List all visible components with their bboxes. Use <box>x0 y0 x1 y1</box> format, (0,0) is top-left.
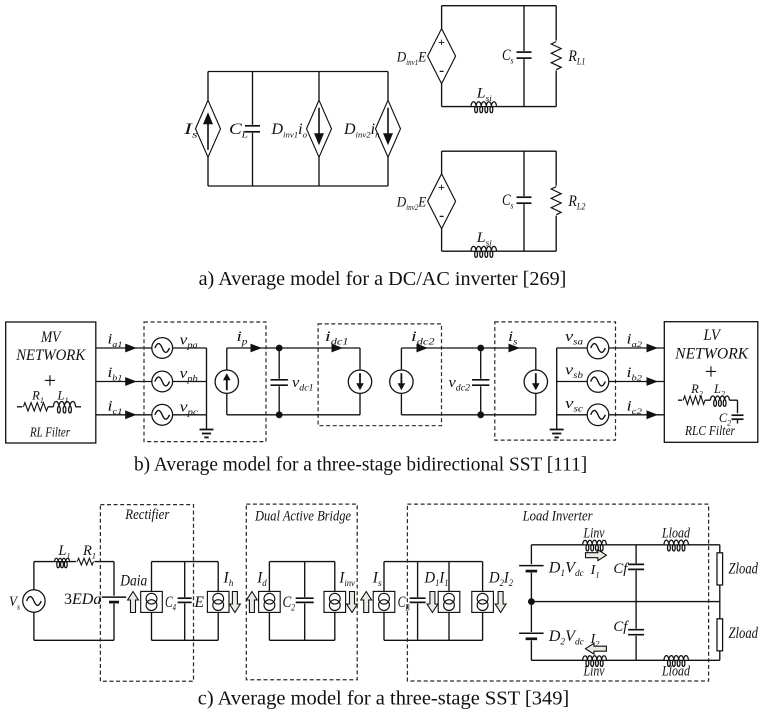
svg-text:Zload: Zload <box>729 561 759 578</box>
svg-text:LV: LV <box>703 327 722 344</box>
svg-text:+: + <box>705 359 717 384</box>
svg-text:E: E <box>194 594 205 611</box>
svg-text:a) Average model for a DC/AC i: a) Average model for a DC/AC inverter [2… <box>199 268 567 290</box>
svg-text:Lload: Lload <box>661 664 690 680</box>
svg-text:Linv: Linv <box>583 526 605 542</box>
svg-text:Dual Active Bridge: Dual Active Bridge <box>254 509 351 525</box>
svg-text:Load Inverter: Load Inverter <box>522 509 593 525</box>
svg-text:NETWORK: NETWORK <box>15 347 86 364</box>
svg-text:-: - <box>439 63 444 79</box>
svg-text:Lload: Lload <box>661 526 690 542</box>
svg-text:Daia: Daia <box>119 573 147 590</box>
svg-text:+: + <box>44 368 56 393</box>
svg-text:-: - <box>439 208 444 224</box>
svg-text:RLC Filter: RLC Filter <box>684 423 735 438</box>
svg-text:b) Average model for a three-s: b) Average model for a three-stage bidir… <box>134 454 587 476</box>
svg-text:Linv: Linv <box>583 664 605 680</box>
svg-text:Cf: Cf <box>613 619 629 635</box>
svg-text:Cf: Cf <box>613 561 629 577</box>
svg-text:Rectifier: Rectifier <box>124 507 169 523</box>
svg-text:+: + <box>438 180 445 194</box>
svg-text:3EDa: 3EDa <box>64 591 101 608</box>
svg-text:+: + <box>438 35 445 49</box>
svg-text:RL Filter: RL Filter <box>29 425 70 440</box>
svg-text:c) Average model for a three-s: c) Average model for a three-stage SST [… <box>198 688 570 710</box>
svg-text:Zload: Zload <box>729 625 759 642</box>
svg-text:MV: MV <box>40 329 62 346</box>
